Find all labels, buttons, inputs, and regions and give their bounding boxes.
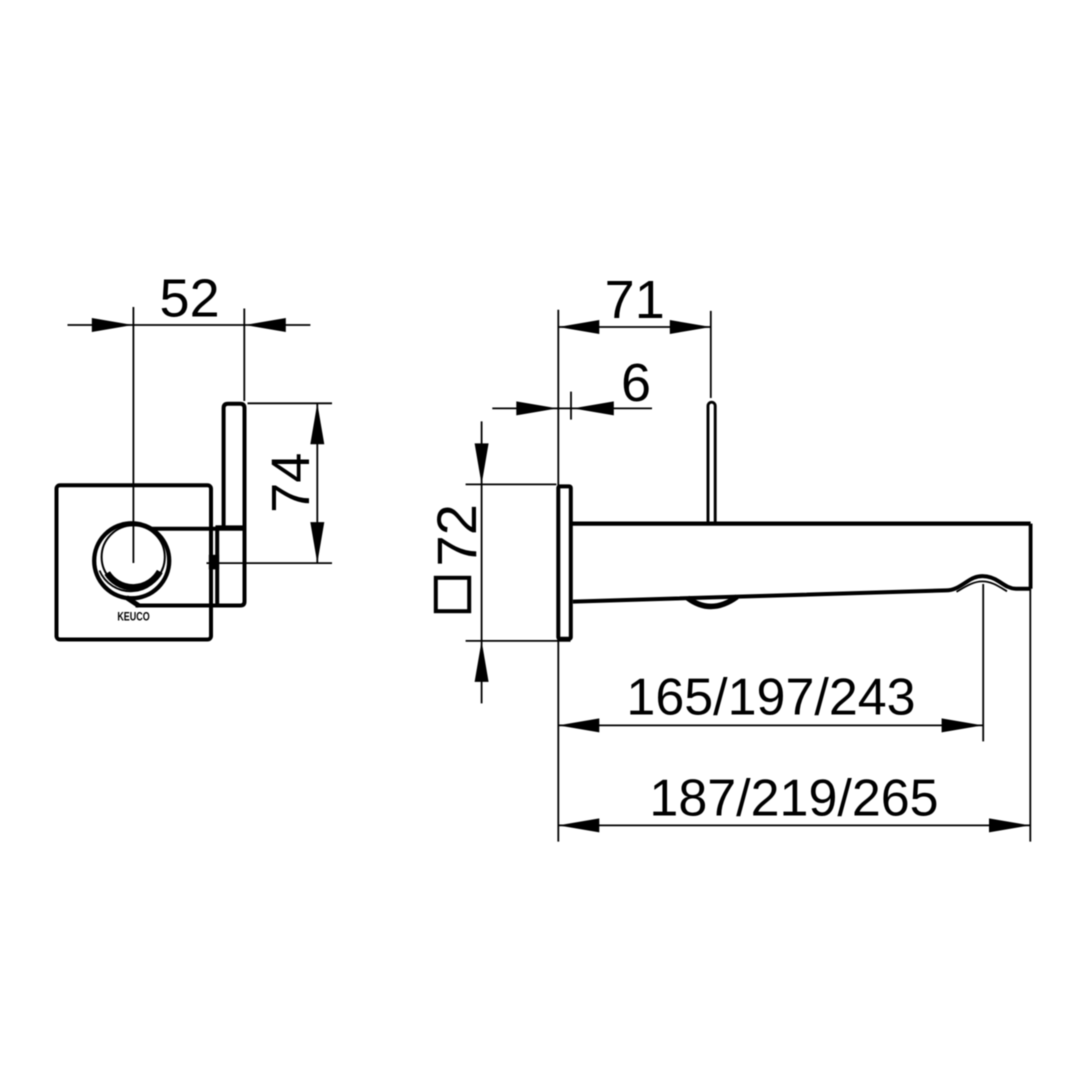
wall plate side view [558,486,571,638]
svg-text:74: 74 [261,453,321,513]
dim 165 dimension line [558,724,982,726]
dim 72 up arrow [475,641,489,682]
wall plate front view [57,485,212,639]
dim 52 extension line (knob centerline) [132,307,134,563]
knob second ring thin arc [100,568,164,592]
wall reference line [557,310,559,842]
dim 6 dimension line [492,407,652,409]
valve body left edge [215,526,219,603]
spout top edge [571,521,1031,525]
valve body right edge and bottom edge [136,524,245,606]
dim 72 dimension line [481,421,483,703]
junction blob at plate edge [209,555,219,570]
dim 165 left arrow [558,718,599,732]
aerator hump inner thin curve [957,581,1008,591]
dim 74 down arrow [310,522,324,563]
dim 72 square symbol [436,578,469,611]
dim 187 right arrow [989,818,1030,832]
dim 165 right arrow [942,718,983,732]
dim 187 right extension line [1029,589,1031,842]
svg-text:187/219/265: 187/219/265 [649,770,938,828]
knob outer circle [94,523,169,598]
spout tip right edge [1029,524,1033,589]
svg-text:165/197/243: 165/197/243 [626,669,915,727]
svg-text:71: 71 [605,270,665,330]
dim 71 right extension line [710,311,712,398]
body bottom-left diagonal [127,598,140,606]
dim 74 bottom extension line [207,562,333,564]
dim 52 extension line (lever right) [243,309,245,402]
dim 52 dimension line [68,324,311,326]
valve body top edge [151,527,245,531]
dim 71 right arrow [670,320,711,334]
dim 187 dimension line [558,824,1030,826]
svg-text:6: 6 [621,353,651,413]
water outlet bump [688,597,738,607]
dim 74 dimension line [316,403,318,563]
dim 165 right extension line [982,584,984,741]
lever stem side view [708,402,715,522]
dim 72 bottom extension line [466,640,571,642]
lever/body junction thin line [224,525,243,527]
dim 74 up arrow [310,403,324,444]
dim 6 extension line [570,392,572,420]
dim 52 right arrow [245,318,286,332]
dim 52 left arrow [92,318,133,332]
dim 72 down arrow [475,443,489,484]
knob inner circle bottom shadow arc [107,572,160,588]
dim 71 dimension line [558,326,711,328]
svg-text:72: 72 [425,504,488,566]
svg-text:KEUCO: KEUCO [117,612,149,624]
knob inner circle [102,525,165,588]
svg-text:52: 52 [160,269,220,329]
spout bottom edge with aerator hump [573,576,1031,602]
dim 72 top extension line [466,483,557,485]
dim 71 left arrow [558,320,599,334]
dim 6 left arrow [516,401,557,415]
dim 187 left arrow [558,818,599,832]
lever handle front view [224,404,245,527]
dim 74 top extension line [248,402,333,404]
dim 6 right arrow [573,401,614,415]
step connector line [216,525,224,527]
